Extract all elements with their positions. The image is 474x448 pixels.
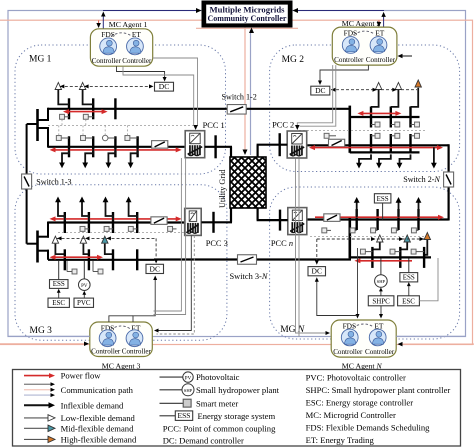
MG2 junction busbar xyxy=(348,106,351,153)
MGN bus switch xyxy=(324,214,340,222)
SHPC box MGN xyxy=(368,296,394,306)
svg-text:FDS: Flexible Demands Scheduli: FDS: Flexible Demands Scheduling xyxy=(306,423,431,433)
MG1 lower bus xyxy=(48,146,186,148)
svg-text:ESC: ESC xyxy=(402,298,415,306)
svg-text:PVC: PVC xyxy=(77,299,91,307)
MGN smart meter u3 xyxy=(391,228,396,233)
legend communication path xyxy=(24,383,51,385)
MG1 low-flexible demand arrow 1 xyxy=(57,89,59,92)
MG1 left riser lower xyxy=(47,127,49,148)
svg-text:Low-flexible demand: Low-flexible demand xyxy=(61,413,136,423)
MG3 grid-side tick xyxy=(212,212,214,233)
MG1 grid-side tick xyxy=(214,135,216,158)
svg-text:Controller: Controller xyxy=(92,57,122,65)
DC box MG1 xyxy=(155,82,174,91)
MGN lower bus tick 1 xyxy=(371,247,373,268)
MG2 lower bus tick 2 xyxy=(390,134,392,153)
svg-text:Inflexible demand: Inflexible demand xyxy=(61,400,124,410)
comm MCN riser 1 xyxy=(357,248,359,315)
comm arrow into PCC2 top xyxy=(295,125,300,130)
svg-text:Controller: Controller xyxy=(366,56,396,64)
comm MCN riser 2 xyxy=(380,306,382,315)
MG3 bus to grid xyxy=(201,221,232,223)
comm DC to MCN xyxy=(317,279,358,316)
MGN meter comm dashed line xyxy=(310,235,428,237)
MGN low-flexible demand arrow xyxy=(379,241,381,243)
MGN upper bus xyxy=(307,218,449,220)
MG3 inflexible demand arrow up 2 xyxy=(82,202,89,221)
ESC box MGN xyxy=(398,296,420,306)
comm MC3 riser 2 xyxy=(109,316,133,322)
wire ESS to bus MGN xyxy=(382,203,384,220)
legend photovoltaic xyxy=(160,376,184,378)
MG2 lower bus tick 1 xyxy=(370,134,372,153)
svg-text:PCC 2: PCC 2 xyxy=(272,121,294,130)
MG2 high-flex elbow xyxy=(411,88,419,107)
legend energy storage system xyxy=(160,415,176,417)
svg-text:DC: DC xyxy=(150,264,160,273)
MG1 smart meter l4 xyxy=(125,136,130,141)
legend smart meter xyxy=(160,402,184,404)
MGN upper bus tick 4 xyxy=(417,209,419,230)
MG3 smart meter u2 xyxy=(104,226,109,231)
comm MC1 to DC arrow xyxy=(117,66,165,78)
MG3 left stub upper xyxy=(38,236,50,238)
wire MG1 tie stub xyxy=(27,123,38,125)
MGN upper bus tick 2 xyxy=(376,209,378,230)
MG1 upper bus tick 1 xyxy=(68,98,70,119)
MG1 low-flexible demand arrow 2 xyxy=(82,89,84,92)
MG N boundary xyxy=(270,187,460,339)
MG2 power flow arrow upper xyxy=(362,112,396,114)
MGN smart meter u0 xyxy=(322,228,327,233)
wire bus to ESS MG3 xyxy=(58,261,60,280)
MG3 lower bus xyxy=(48,259,155,261)
MGN lower bus tick 2 xyxy=(399,247,401,268)
MG1 lower bus tick 1 xyxy=(68,136,70,157)
svg-text:ESS: ESS xyxy=(53,280,65,288)
MGN lower bus xyxy=(350,256,431,258)
MGN inflexible demand arrow up 2 xyxy=(398,202,400,218)
svg-text:FDS: FDS xyxy=(344,28,358,37)
MG3 inflexible demand arrow up 1 xyxy=(58,202,65,221)
MG2 bus switch xyxy=(329,139,345,147)
comm MC2 to DC arrow xyxy=(320,65,368,82)
MG1 lower bus tick 3 xyxy=(114,136,116,157)
comm MC2 to PCC2 line a xyxy=(297,65,332,127)
ESS box MG3 xyxy=(50,280,69,289)
MGN smart meter l3 xyxy=(411,249,416,254)
svg-text:Community Controller: Community Controller xyxy=(208,13,287,23)
svg-text:ET: ET xyxy=(375,28,385,37)
PCC 1 box xyxy=(185,131,205,158)
comm ESC to ESS xyxy=(58,291,60,299)
PCC 3 box xyxy=(185,208,202,235)
MG2 low-flexible demand arrow 2 xyxy=(397,89,399,92)
MG2 low-flexible demand arrow 1 xyxy=(378,89,380,92)
comm PCC3 to MC3 line a xyxy=(157,236,192,331)
MG2 lower bus xyxy=(307,144,448,146)
comm arrow into PCC1 top xyxy=(193,125,198,130)
wire bus to SHP MGN xyxy=(380,259,382,275)
svg-text:PCC n: PCC n xyxy=(271,239,293,248)
wire tie switch 1-3 vertical xyxy=(26,124,28,244)
MG2 demand-DC dashed link xyxy=(331,89,417,91)
MGN bus to grid xyxy=(257,219,288,221)
svg-text:Controller: Controller xyxy=(333,348,363,356)
MGN power flow arrow lower xyxy=(359,260,412,262)
salmon arrow into MC Agent 1 xyxy=(98,21,100,24)
MG3 upper bus tick 1 xyxy=(64,212,66,233)
MG2 smart meter u1 xyxy=(375,122,380,127)
MG3 meter comm dashed line xyxy=(58,232,191,234)
switch 3-N xyxy=(238,255,257,265)
comm MC3 to DC riser xyxy=(133,278,155,323)
legend mid-flexible demand xyxy=(24,427,48,429)
MG3 demand-DC dashed link xyxy=(57,237,157,239)
svg-text:Switch 1-3: Switch 1-3 xyxy=(36,177,71,186)
comm ESC loop MGN xyxy=(430,258,438,301)
MG2 low-flex elbow 1 xyxy=(371,89,379,107)
svg-text:Controller: Controller xyxy=(122,347,152,355)
ESS box MGN top xyxy=(374,194,391,203)
svg-text:Communication path: Communication path xyxy=(61,385,134,395)
MGN grid-side tick xyxy=(279,210,281,231)
ESS box MGN xyxy=(400,273,418,282)
MG1 bus switch xyxy=(152,141,168,149)
MG2 inflexible demand arrow 1 xyxy=(359,154,371,163)
MG1 power flow arrow upper xyxy=(68,111,103,113)
wire MG3 tie stub xyxy=(27,243,38,245)
salmon feeder line under MMCC xyxy=(196,27,298,29)
MG 3 boundary xyxy=(15,185,227,341)
wire bus to PV MG3 xyxy=(83,261,85,279)
MG2 upper bus tick 2 xyxy=(390,107,392,128)
MGN power flow arrow upper xyxy=(315,216,439,218)
wire bus to ESS MGN xyxy=(408,259,410,273)
MGN lower bus tick 3 xyxy=(423,247,425,268)
MGN smart meter l2 xyxy=(390,249,395,254)
svg-text:DC: DC xyxy=(315,86,325,95)
MC Agent N (FDS, ET, controllers) xyxy=(331,320,396,357)
svg-text:Controller: Controller xyxy=(365,348,395,356)
MGN inflexible demand arrow up 3 xyxy=(418,202,420,218)
MGN inflexible demand arrow up 1 xyxy=(356,202,358,218)
MG1 low-flex elbow 2 xyxy=(83,89,94,104)
MG2 lower bus b xyxy=(350,151,420,153)
MG3 low-flexible demand arrow 1 xyxy=(54,242,56,245)
MG1 smart meter u1 xyxy=(60,114,65,119)
svg-text:MC Agent 1: MC Agent 1 xyxy=(109,20,148,29)
svg-text:Photovoltaic: Photovoltaic xyxy=(196,372,240,382)
communication path rect (blue, MC agents to MMCC) xyxy=(8,11,466,337)
comm ESC to ESS MGN xyxy=(408,284,410,296)
blue comm line MC Agent N to right rail xyxy=(396,335,465,337)
MG1 upper bus tick 2 xyxy=(92,98,94,119)
MG3 upper bus tick 3 xyxy=(112,212,114,233)
ESC box MG3 xyxy=(48,298,69,307)
MG1 meter comm stubs xyxy=(61,119,63,125)
MG1 left busbar xyxy=(36,109,39,141)
MG2 high-flexible demand arrow xyxy=(417,87,419,88)
svg-text:ESS: ESS xyxy=(178,411,191,420)
tie line switch 1-2 xyxy=(246,108,351,110)
svg-text:Small hydropower plant: Small hydropower plant xyxy=(196,385,280,395)
comm PCC1 to agents line b xyxy=(154,158,186,315)
comm MC1 to PCC1 line b xyxy=(153,58,198,126)
MGN low-flex elbow xyxy=(372,242,379,249)
MG3 power flow arrow lower xyxy=(55,256,99,258)
svg-text:ESS: ESS xyxy=(377,195,389,203)
svg-text:Controller: Controller xyxy=(122,57,152,65)
MG1 inflexible demand arrow 2 xyxy=(85,149,93,164)
MG1 power flow arrow lower xyxy=(55,149,177,151)
MG2 smart meter l0 xyxy=(324,133,329,138)
MG1 smart meter u2 xyxy=(83,114,88,119)
MG3 lower bus tick 1 xyxy=(64,249,66,270)
comm PVC to PV xyxy=(83,293,85,299)
MGN smart meter u2 xyxy=(371,228,376,233)
MGN mid-flexible demand arrow xyxy=(406,241,408,243)
MGN smart meter u1 xyxy=(350,228,355,233)
legend high-flexible demand xyxy=(24,438,48,440)
MG2 bus to grid xyxy=(257,144,288,146)
salmon arrow into MC Agent 3 xyxy=(0,343,84,345)
svg-text:Energy storage system: Energy storage system xyxy=(198,411,276,421)
tie line switch 3-N xyxy=(154,258,351,260)
PCC n box xyxy=(288,208,307,235)
salmon arrow into MC Agent N xyxy=(401,343,474,345)
MG3 left riser lower xyxy=(47,250,49,260)
svg-text:MG 2: MG 2 xyxy=(282,55,305,65)
MG1 lower bus tick 4 xyxy=(136,136,138,157)
svg-text:High-flexible demand: High-flexible demand xyxy=(61,435,137,445)
switch 1-3 xyxy=(22,174,32,189)
svg-text:ET: Energy Trading: ET: Energy Trading xyxy=(306,435,375,445)
svg-text:MC: Microgrid Controller: MC: Microgrid Controller xyxy=(306,410,396,420)
MG1 upper bus xyxy=(48,108,228,110)
MG3 left stub lower xyxy=(38,250,50,252)
svg-text:Smart meter: Smart meter xyxy=(196,398,238,408)
MG3 lower bus tick 2 xyxy=(88,249,90,270)
MG3 inflexible demand arrow up 4 xyxy=(129,202,138,221)
legend frame xyxy=(13,370,461,447)
svg-text:DC: Demand controller: DC: Demand controller xyxy=(163,436,244,446)
MG3 lower bus tick 4 xyxy=(136,249,138,270)
DC box MG3 xyxy=(146,264,164,273)
blue comm line utility grid to MMCC xyxy=(250,30,252,155)
MG2 grid-side tick xyxy=(279,133,281,156)
MGN upper bus tick 1 xyxy=(356,209,358,230)
svg-text:ESC: ESC xyxy=(52,299,65,307)
MGN demand-DC dashed link xyxy=(317,238,425,240)
legend low-flexible demand xyxy=(24,417,48,419)
MGN upper bus tick 3 xyxy=(397,209,399,230)
comm PCCn to MCN xyxy=(296,159,329,334)
MGN smart meter u4 xyxy=(411,228,416,233)
MG2 upper bus xyxy=(350,116,420,118)
MG1 inflexible demand arrow 3 xyxy=(108,149,115,164)
PCC 2 box xyxy=(287,131,307,158)
svg-text:PVC: Photovoltaic controller: PVC: Photovoltaic controller xyxy=(306,373,406,383)
MG1 demand-DC dashed link xyxy=(60,85,152,87)
comm MC2 to PCC2 line b xyxy=(300,65,336,126)
MG3 upper bus tick 2 xyxy=(88,212,90,233)
DC box MG2 xyxy=(311,86,330,95)
MG1 photovoltaic meter xyxy=(102,135,108,141)
MG2 inflexible demand arrow 2 xyxy=(379,154,391,163)
DC box MGN xyxy=(308,267,326,276)
svg-text:Switch 1-2: Switch 1-2 xyxy=(222,92,257,101)
MG3 low-flex elbow 1 xyxy=(55,243,64,254)
Multiple Microgrids Community Controller box xyxy=(202,1,292,27)
MG1 lower bus tick 2 xyxy=(92,136,94,157)
svg-text:Mid-flexible demand: Mid-flexible demand xyxy=(61,423,134,433)
svg-text:ESC: Energy storage controller: ESC: Energy storage controller xyxy=(306,398,414,408)
MG 1 boundary xyxy=(15,45,226,174)
svg-text:PCC 1: PCC 1 xyxy=(203,121,225,130)
MG3 mid-flex elbow xyxy=(105,243,113,254)
MG3 smart meter u4 xyxy=(168,226,173,231)
blue arrow MC Agent 2 to comm line xyxy=(383,16,385,27)
MG1 upper bus tick 3 xyxy=(114,98,116,119)
MC Agent 2 (FDS, ET, controllers) xyxy=(332,27,397,65)
communication path rect (salmon, MMCC to MC agents) xyxy=(0,20,473,344)
MGN junction busbar xyxy=(348,217,351,258)
svg-text:Controller: Controller xyxy=(91,347,121,355)
MG2 smart meter l3 xyxy=(415,133,420,138)
switch 2-N xyxy=(444,172,454,187)
MG2 inflexible demand arrow 3 xyxy=(400,154,411,163)
MG3 smart meter u1 xyxy=(80,226,85,231)
SHP circle MGN xyxy=(375,275,388,288)
MGN mid-flex elbow xyxy=(400,242,407,249)
legend small hydropower plant xyxy=(160,389,184,391)
comm arrow into MC Agent 2 right xyxy=(399,55,412,57)
comm PCC3 to MC3 line b xyxy=(157,236,195,335)
comm SHPC to SHP xyxy=(380,289,382,296)
MG2 upper bus tick 1 xyxy=(370,107,372,128)
svg-text:MG 3: MG 3 xyxy=(30,326,53,336)
MG1 inflexible demand arrow 1 xyxy=(62,149,69,164)
MC Agent 3 (FDS, ET, controllers) xyxy=(90,322,153,357)
MGN high-flexible demand arrow xyxy=(426,239,428,242)
MG3 bus switch xyxy=(151,217,167,225)
salmon comm line MMCC to utility grid xyxy=(244,27,246,150)
svg-text:Utility Grid: Utility Grid xyxy=(218,170,227,208)
MG2 meter comm dashed line xyxy=(299,130,425,132)
MC Agent 1 (FDS, ET, controllers) xyxy=(90,29,152,66)
MG1 bus to grid xyxy=(205,146,232,148)
MG3 power flow arrow upper xyxy=(55,218,177,220)
svg-text:SHPC: SHPC xyxy=(372,298,390,306)
svg-text:Switch 3-N: Switch 3-N xyxy=(230,272,268,281)
MG2 inflexible demand arrow 4 xyxy=(433,147,435,163)
MG2 low-flex elbow 2 xyxy=(391,89,399,107)
svg-text:MG N: MG N xyxy=(280,325,305,335)
MG3 upper bus xyxy=(48,221,186,223)
blue comm line MC Agent 3 to left rail xyxy=(8,335,89,337)
svg-text:DC: DC xyxy=(312,267,322,276)
MG2 smart meter u2 xyxy=(395,122,400,127)
MG3 lower bus tick 3 xyxy=(112,249,114,270)
svg-text:MG 1: MG 1 xyxy=(29,55,52,65)
MG2 upper bus tick 3 xyxy=(409,107,411,128)
svg-text:PV: PV xyxy=(185,376,192,381)
legend inflexible demand xyxy=(24,404,50,406)
MG1 left riser upper xyxy=(47,108,49,121)
svg-text:SHP: SHP xyxy=(184,388,193,393)
PV circle MG3 xyxy=(79,279,91,291)
MG3 inflexible demand arrow up 3 xyxy=(106,202,114,221)
MG2 smart meter l1 xyxy=(375,133,380,138)
MG1 smart meter l1 xyxy=(56,136,61,141)
svg-text:PCC 3: PCC 3 xyxy=(206,239,228,248)
blue arrow MC Agent 1 to comm line xyxy=(102,16,104,29)
svg-text:Controller: Controller xyxy=(334,56,364,64)
svg-text:ESS: ESS xyxy=(403,274,415,282)
MG2 power flow arrow lower xyxy=(314,147,438,149)
comm MC1 to PCC1 line a xyxy=(123,66,194,126)
MG1 inflexible demand arrow 4 xyxy=(131,149,138,164)
arrow into MMCC left xyxy=(103,10,196,12)
switch 1-2 xyxy=(227,105,246,115)
MGN high-flex elbow xyxy=(424,240,427,255)
MG1 left stub upper xyxy=(38,119,50,121)
legend power flow xyxy=(24,375,50,377)
MG1 left stub lower xyxy=(38,127,50,129)
salmon arrow into MC Agent 2 xyxy=(378,21,380,24)
svg-text:Switch 2-N: Switch 2-N xyxy=(403,175,440,184)
MG3 smart meter u3 xyxy=(128,226,133,231)
MG2 smart meter u3 xyxy=(415,122,420,127)
MG3 left riser upper xyxy=(47,222,49,238)
MG3 upper bus tick 4 xyxy=(136,212,138,233)
MG3 low-flex elbow 2 xyxy=(83,243,89,254)
svg-text:SHPC: Small hydropower plant c: SHPC: Small hydropower plant controller xyxy=(306,385,451,395)
MG3 low-flexible demand arrow 2 xyxy=(82,242,84,245)
MG3 smart meter l1 xyxy=(72,269,77,274)
MG 2 boundary xyxy=(270,45,460,172)
MGN smart meter l1 xyxy=(360,249,365,254)
svg-text:PV: PV xyxy=(81,284,88,289)
MG3 mid-flexible demand arrow xyxy=(104,242,106,245)
MG1 smart meter l2 xyxy=(81,136,86,141)
wire tie switch 2-N vertical xyxy=(448,144,450,220)
svg-text:SHP: SHP xyxy=(377,279,386,284)
svg-text:DC: DC xyxy=(159,82,169,91)
svg-text:Power flow: Power flow xyxy=(61,371,102,381)
arrow into MMCC right xyxy=(298,10,384,12)
MG1 low-flex elbow 1 xyxy=(58,89,69,104)
MG2 smart meter l2 xyxy=(395,133,400,138)
MG3 smart meter l2 xyxy=(98,269,103,274)
PVC box MG3 xyxy=(74,298,94,307)
comm PCC1 to agents line a xyxy=(154,158,182,311)
MG2 lower bus tick 3 xyxy=(409,134,411,153)
svg-text:PCC: Point of common coupling: PCC: Point of common coupling xyxy=(163,424,276,434)
MG3 left busbar xyxy=(36,231,39,263)
MG1 meter comm dashed line xyxy=(48,124,194,126)
